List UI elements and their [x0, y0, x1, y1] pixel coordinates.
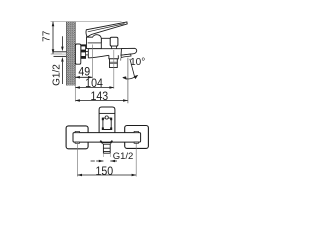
extension lines 150: [76, 143, 78, 177]
dimension 143: [75, 99, 128, 102]
svg-text:143: 143: [90, 90, 108, 103]
diverter knob: [110, 37, 118, 46]
knob corner clamps: [102, 118, 112, 130]
extension line wall face: [74, 86, 76, 102]
dimension 77: [52, 21, 55, 54]
knob neck: [111, 46, 116, 49]
extension line, pipe axis: [51, 53, 62, 55]
spout mouth: [121, 54, 131, 57]
cartridge housing: [87, 35, 102, 49]
body back ridge: [101, 37, 110, 39]
extension line 49: [91, 45, 93, 79]
shower hose nipple: [101, 143, 111, 145]
angle arc with arrows: [122, 75, 138, 80]
left wall flange square: [66, 126, 88, 149]
faucet body: [88, 49, 135, 58]
svg-text:G1/2: G1/2: [113, 151, 134, 162]
right connection bumps: [134, 131, 138, 132]
hose below nipple: [103, 153, 105, 157]
supply pipe in wall: [54, 51, 67, 53]
wall hatched section: [66, 22, 75, 86]
extension line 143 / vertical angle reference: [127, 58, 129, 104]
escutcheon (wall flange): [75, 44, 80, 64]
right wall flange square: [125, 126, 149, 149]
extension line 104 (diverter axis): [113, 50, 115, 89]
svg-text:104: 104: [85, 77, 103, 90]
svg-text:150: 150: [95, 165, 113, 178]
10 degree slant line: [130, 59, 135, 78]
spout: [121, 48, 137, 55]
knob button circle: [105, 116, 108, 119]
extension line, top of handle: [51, 21, 122, 23]
svg-text:77: 77: [42, 30, 53, 42]
union stub to body: [86, 51, 89, 53]
dimension 49: [75, 76, 93, 79]
G1/2 pipe dimension arrows: [61, 36, 64, 84]
body bar: [73, 133, 141, 143]
hose G1/2 dimension: [91, 160, 117, 163]
spout root under bar: [100, 141, 112, 144]
svg-text:G1/2: G1/2: [51, 64, 62, 86]
wall face line: [74, 22, 76, 86]
spout seen from above: [99, 107, 115, 133]
spout mouth left tick: [120, 58, 122, 61]
svg-text:10°: 10°: [130, 57, 145, 68]
union nut: [81, 45, 86, 59]
pipe centerline: [51, 53, 67, 55]
left connection bumps: [75, 131, 79, 132]
dimension 104: [75, 86, 114, 89]
dimension 150: [77, 174, 136, 177]
lever handle: [86, 22, 127, 37]
diverter knob seen from above: [103, 118, 111, 129]
shower outlet housing below body: [109, 55, 118, 59]
